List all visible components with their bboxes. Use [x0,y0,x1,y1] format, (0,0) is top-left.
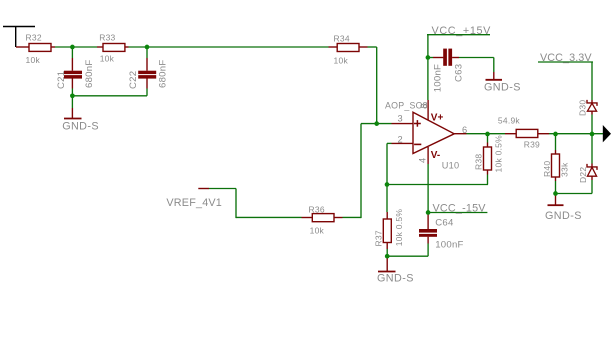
capacitor C64 [419,214,464,250]
capacitor C21 [56,58,95,89]
wire R33 to R34 [129,46,329,48]
svg-text:R36: R36 [309,204,325,214]
C63 pin 2 [452,57,459,59]
R39 body [516,129,538,137]
VREF_4V1 net stub [198,188,209,190]
U10 pin 4 V- supply [427,147,429,164]
wire D22 bottom [591,180,593,194]
svg-text:U10: U10 [442,160,460,170]
D30 anode pin [591,111,593,114]
svg-text:8: 8 [419,103,429,108]
ground GND-S under R40 [545,194,582,222]
wire corner down to pin3 node [376,47,378,124]
off-page arrow output [603,125,611,142]
R36 body [312,214,334,222]
R34 pin 1 [329,46,338,48]
wire feedback horizontal [387,184,488,186]
svg-text:100nF: 100nF [432,64,443,92]
C64 top plate [419,229,437,233]
R39 pin 1 [505,133,516,135]
resistor R34 [329,33,368,65]
ground GND-S under R37 [377,256,414,284]
D22 anode triangle [587,167,596,176]
capacitor C63 [432,49,464,93]
C22 top plate [138,71,156,74]
C22 pin 2 [146,78,148,88]
svg-text:R38: R38 [474,154,484,170]
junction node pin3 [374,121,379,126]
svg-text:10k: 10k [100,54,115,64]
svg-text:D30: D30 [578,100,588,116]
wire output node to R40 [555,134,557,150]
resistor R40 (vertical) [542,150,570,181]
junction node R33/R34/C22 [145,45,150,50]
C22 bottom plate [138,75,156,79]
resistor R37 (vertical) [374,209,405,249]
R37 body [383,219,391,243]
junction node output/R38 [485,132,490,137]
wire C63 to GND corner [493,58,495,73]
ground stub [71,108,73,118]
resistor R38 (vertical) [474,135,504,175]
wire VREF_4V1 horizontal [209,188,236,190]
U10 plus mark [414,123,421,125]
wire R40 bottom to gnd node [555,181,557,194]
svg-text:10k: 10k [310,225,325,235]
wire C21 bottom [71,89,73,109]
R37 pin 2 [386,243,388,250]
resistor R36 [302,204,343,235]
junction node R37 bottom gnd [385,254,390,259]
svg-text:2: 2 [398,134,403,144]
svg-text:C63: C63 [453,64,464,82]
D22 anode pin [591,176,593,180]
svg-text:R39: R39 [524,139,540,149]
junction node VCC+15/C63 [426,55,431,60]
supply bar VCC_-15V [428,203,488,215]
junction node feedback/R37 [385,182,390,187]
wire VCC+15 bar down through C63 node to opamp V+ [427,35,429,100]
U10 pin 6 output [454,133,466,135]
svg-text:VREF_4V1: VREF_4V1 [166,197,222,209]
svg-text:10k: 10k [26,55,41,65]
op-amp U10 [385,100,467,170]
svg-text:R34: R34 [334,33,350,43]
wire R37 bottom [386,249,388,256]
svg-text:100nF: 100nF [435,239,463,250]
R37 pin 1 [386,212,388,219]
capacitor C22 [128,58,169,89]
R34 pin 2 [359,46,368,48]
svg-text:3: 3 [398,114,403,124]
R39 pin 2 [538,133,549,135]
ground bar [548,204,564,206]
ground stub [493,72,495,80]
svg-text:10k 0.5%: 10k 0.5% [494,135,504,173]
R38 pin 2 [487,170,489,175]
U10 minus mark [414,143,421,145]
svg-text:6: 6 [462,125,467,135]
wire pin2 stub [387,142,392,144]
U10 pin 2 inverting input [392,142,414,144]
R40 pin 1 [555,150,557,154]
junction node R40 bottom gnd [553,191,558,196]
svg-text:R33: R33 [99,32,115,42]
C21 pin 2 [71,78,73,88]
wire C22 bottom [146,89,148,96]
C63 right plate [448,49,452,66]
svg-text:680nF: 680nF [157,60,168,88]
svg-text:GND-S: GND-S [377,273,414,285]
junction node R32/R33/C21 [70,45,75,50]
ground bar [64,118,82,120]
ground stub [386,256,388,271]
svg-text:C22: C22 [128,71,139,89]
svg-text:GND-S: GND-S [545,210,582,222]
zener diode D22 [578,164,597,184]
supply bar VCC_3.3V [538,52,593,64]
D22 cathode pin [591,164,593,168]
R38 body [484,147,492,170]
wire D22 bottom to R40 gnd node [556,193,593,195]
C22 pin 1 [146,58,148,71]
R34 body [337,44,359,52]
net VREF_4V1 [166,189,222,210]
svg-text:GND-S: GND-S [62,121,99,133]
wire C63 node to cap [428,57,433,59]
svg-text:GND-S: GND-S [484,81,521,93]
wire R32 to R33 [55,46,97,48]
wire D30 bottom to output node [591,115,593,135]
C21 pin 1 [71,58,73,71]
wire opamp output to R39 [467,133,506,135]
svg-text:V+: V+ [431,113,444,124]
C64 bottom plate [419,234,437,237]
junction node VCC-15/C64 [426,210,431,215]
wire pin3 node horizontal [361,123,392,125]
wire C64 bottom down [427,244,429,257]
R40 body [552,154,560,177]
ground stub [555,194,557,205]
svg-text:R32: R32 [26,33,42,43]
resistor R32 [16,33,55,66]
U10 pin 3 non-inverting input [392,123,414,125]
D22 zener cathode bar [587,164,597,170]
ground GND-S under C63 [484,72,521,93]
svg-text:4: 4 [418,158,428,163]
ground GND-S under C21 [62,108,99,133]
C21 bottom plate [64,75,82,79]
svg-text:54.9k: 54.9k [498,116,521,126]
resistor R33 [97,32,129,63]
U10 pin 8 V+ supply [427,100,429,120]
wire node to C21 top [71,47,73,58]
svg-text:R37: R37 [374,230,384,246]
wire R39 to arrow [549,133,603,135]
R38 pin 1 [487,143,489,148]
junction node C21 bottom [70,93,75,98]
junction node output/D30/D22 [590,132,595,137]
D30 zener cathode bar [587,100,597,106]
wire vertical from pin3 node down to R36 row [360,124,362,219]
C64 pin 1 [427,214,429,229]
wire C63 right side [459,57,494,59]
svg-text:VCC_-15V: VCC_-15V [433,203,487,215]
wire R38 top to output node [487,134,489,143]
svg-text:VCC_3.3V: VCC_3.3V [540,52,592,64]
wire VREF to R36 [236,216,302,218]
wire R34 to corner [368,46,377,48]
svg-text:33k: 33k [560,162,570,177]
ground bar [378,271,396,273]
wire C21 bottom to C22 bottom [72,95,147,97]
wire feedback up to R38 bottom [487,175,489,185]
resistor R39 [498,116,549,150]
R40 pin 2 [555,177,557,181]
D30 cathode pin [591,100,593,103]
svg-text:VCC_+15V: VCC_+15V [432,25,492,37]
junction node output/R40 [553,132,558,137]
R32 body [29,44,51,52]
C21 top plate [64,71,82,74]
ground bar [486,79,503,81]
wire VREF corner down [235,189,237,219]
svg-text:R40: R40 [542,161,552,177]
R32 pin 1 [16,46,29,48]
wire C64 bottom to R37 bottom node [387,255,428,257]
svg-text:C64: C64 [435,217,454,228]
D30 anode triangle [587,103,596,111]
svg-text:10k 0.5%: 10k 0.5% [394,209,404,247]
svg-text:C21: C21 [56,71,67,89]
off-page connector top-left (black) [3,27,35,48]
R33 body [103,44,125,52]
wire output node down to D22 [591,134,593,164]
supply bar VCC_+15V [427,25,491,37]
wire R36 right to corner [343,216,362,218]
svg-text:680nF: 680nF [84,60,95,88]
svg-text:10k: 10k [334,56,349,66]
C63 left plate [443,49,447,66]
C63 pin 1 [433,57,443,59]
R32 pin 2 [51,46,55,48]
R33 pin 2 [125,46,129,48]
C64 pin 2 [427,237,429,244]
zener diode D30 [578,100,598,116]
R33 pin 1 [97,46,103,48]
wire pin2 vertical down to R37 [386,143,388,212]
wire node to C22 top [146,47,148,58]
U10 triangle body [413,112,454,153]
svg-text:V-: V- [431,150,440,161]
R36 pin 2 [334,217,343,219]
wire opamp V- down to VCC-15 bar [427,164,429,213]
R36 pin 1 [302,217,313,219]
wire VCC3.3 bar down to D30 [591,62,593,100]
svg-text:D22: D22 [578,167,588,183]
